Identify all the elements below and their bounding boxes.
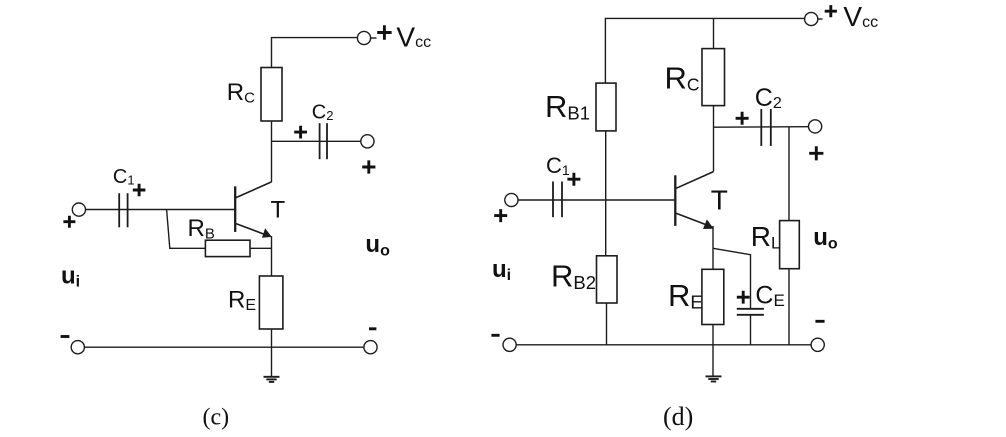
wire input to base (d) — [518, 199, 676, 201]
capacitor CE (d) — [737, 309, 764, 315]
svg-text:ui: ui — [492, 256, 511, 284]
terminal input (d) — [505, 193, 518, 206]
resistor RE (d) — [702, 269, 724, 324]
transistor T (c) collector line — [236, 182, 272, 198]
wire RE to ground (c) — [271, 329, 273, 376]
capacitor C2 (c) — [320, 123, 327, 159]
wire RB to emitter node (c) — [250, 247, 272, 249]
terminal bottom-right (d) — [811, 338, 824, 351]
plus Vcc (d) — [825, 5, 837, 17]
terminal input (c) — [72, 203, 85, 216]
resistor RB1 (d) — [596, 83, 616, 131]
plus input (c) — [63, 216, 75, 228]
svg-text:Vcc: Vcc — [843, 1, 878, 32]
terminal bottom-left (c) — [71, 341, 84, 354]
svg-text:T: T — [711, 185, 728, 216]
svg-text:(c): (c) — [203, 405, 230, 431]
plus output (d) — [809, 146, 823, 160]
minus bottom-left (c) — [61, 335, 70, 338]
plus input (d) — [494, 209, 507, 222]
resistor RE (c) — [259, 276, 283, 329]
transistor T (d) emitter line — [676, 213, 707, 225]
svg-text:Vcc: Vcc — [396, 21, 431, 52]
wire RB1 to RB2 (d) — [605, 131, 607, 256]
svg-text:RB: RB — [188, 215, 215, 243]
capacitor C2 (d) — [761, 109, 771, 146]
wire emitter down (c) — [271, 236, 273, 276]
wire RB2 to rail (d) — [606, 303, 608, 345]
svg-text:C1: C1 — [546, 153, 570, 178]
wire RC top (d) — [713, 18, 715, 48]
wire bottom rail (c) — [84, 346, 364, 348]
resistor RL (d) — [780, 221, 800, 269]
resistor RC (c) — [261, 68, 282, 122]
wire RC bottom to collector (d) — [713, 106, 715, 172]
svg-text:uo: uo — [365, 231, 390, 260]
wire emitter branch to CE (d) — [713, 248, 751, 308]
terminal bottom-left (d) — [503, 338, 516, 351]
wire bottom rail (d) — [516, 344, 812, 346]
plus before C2 (c) — [294, 126, 307, 139]
wire RL to rail (d) — [788, 269, 790, 345]
plus Vcc (c) — [377, 25, 391, 39]
capacitor C1 (c) — [119, 193, 127, 227]
plus output (c) — [362, 160, 375, 173]
svg-text:RC: RC — [665, 60, 700, 95]
svg-text:RE: RE — [668, 278, 703, 313]
ground (d) — [706, 376, 722, 381]
svg-text:ui: ui — [61, 263, 80, 291]
svg-text:T: T — [271, 197, 286, 224]
svg-text:C1: C1 — [113, 166, 135, 188]
svg-text:RE: RE — [228, 287, 256, 315]
minus bottom-left (d) — [491, 334, 499, 337]
terminal output (d) — [809, 120, 822, 133]
svg-text:RB1: RB1 — [545, 89, 590, 124]
transistor T (d) base bar — [674, 175, 676, 226]
capacitor C1 (d) — [553, 182, 562, 218]
node collector out (c) — [272, 140, 361, 142]
svg-text:C2: C2 — [312, 101, 334, 123]
resistor RB (c) — [205, 240, 250, 256]
transistor T (d) collector line — [676, 172, 713, 189]
wire input to base (c) — [85, 209, 235, 211]
terminal Vcc (d) — [805, 12, 818, 25]
transistor T (c) emitter arrowhead — [262, 228, 272, 237]
resistor RC (d) — [702, 49, 725, 106]
wire Vcc stub (c) — [370, 37, 376, 39]
svg-text:RC: RC — [227, 79, 255, 107]
wire top rail (d) — [605, 18, 805, 83]
wire top rail (c) — [272, 38, 358, 68]
plus after C1 (d) — [567, 173, 580, 186]
transistor T (d) emitter arrowhead — [703, 219, 714, 229]
svg-text:uo: uo — [813, 224, 838, 253]
plus CE (d) — [737, 291, 750, 304]
node collector out (d) — [714, 126, 809, 129]
terminal output (c) — [361, 135, 374, 148]
minus bottom-right (c) — [369, 327, 376, 330]
svg-text:(d): (d) — [663, 402, 693, 431]
plus after C1 (c) — [133, 184, 146, 197]
wire emitter down to RE (d) — [712, 226, 714, 269]
svg-text:RL: RL — [751, 221, 781, 253]
transistor T (c) emitter line — [236, 224, 266, 235]
minus bottom-right (d) — [815, 320, 824, 323]
terminal bottom-right (c) — [364, 341, 377, 354]
svg-text:CE: CE — [755, 282, 784, 311]
wire to RL (d) — [788, 127, 790, 221]
wire CE to rail (d) — [750, 315, 752, 345]
terminal Vcc (c) — [357, 31, 370, 44]
plus before C2 (d) — [736, 112, 749, 125]
wire RC bottom to collector (c) — [271, 121, 273, 182]
wire slant to RB (c) — [167, 210, 206, 249]
wire RE to ground (d) — [712, 325, 714, 377]
resistor RB2 (d) — [597, 256, 618, 303]
transistor T (c) base bar — [234, 186, 236, 232]
svg-text:C2: C2 — [755, 84, 782, 112]
wire Vcc stub (d) — [818, 18, 823, 20]
svg-text:RB2: RB2 — [551, 259, 596, 294]
ground (c) — [264, 377, 280, 382]
